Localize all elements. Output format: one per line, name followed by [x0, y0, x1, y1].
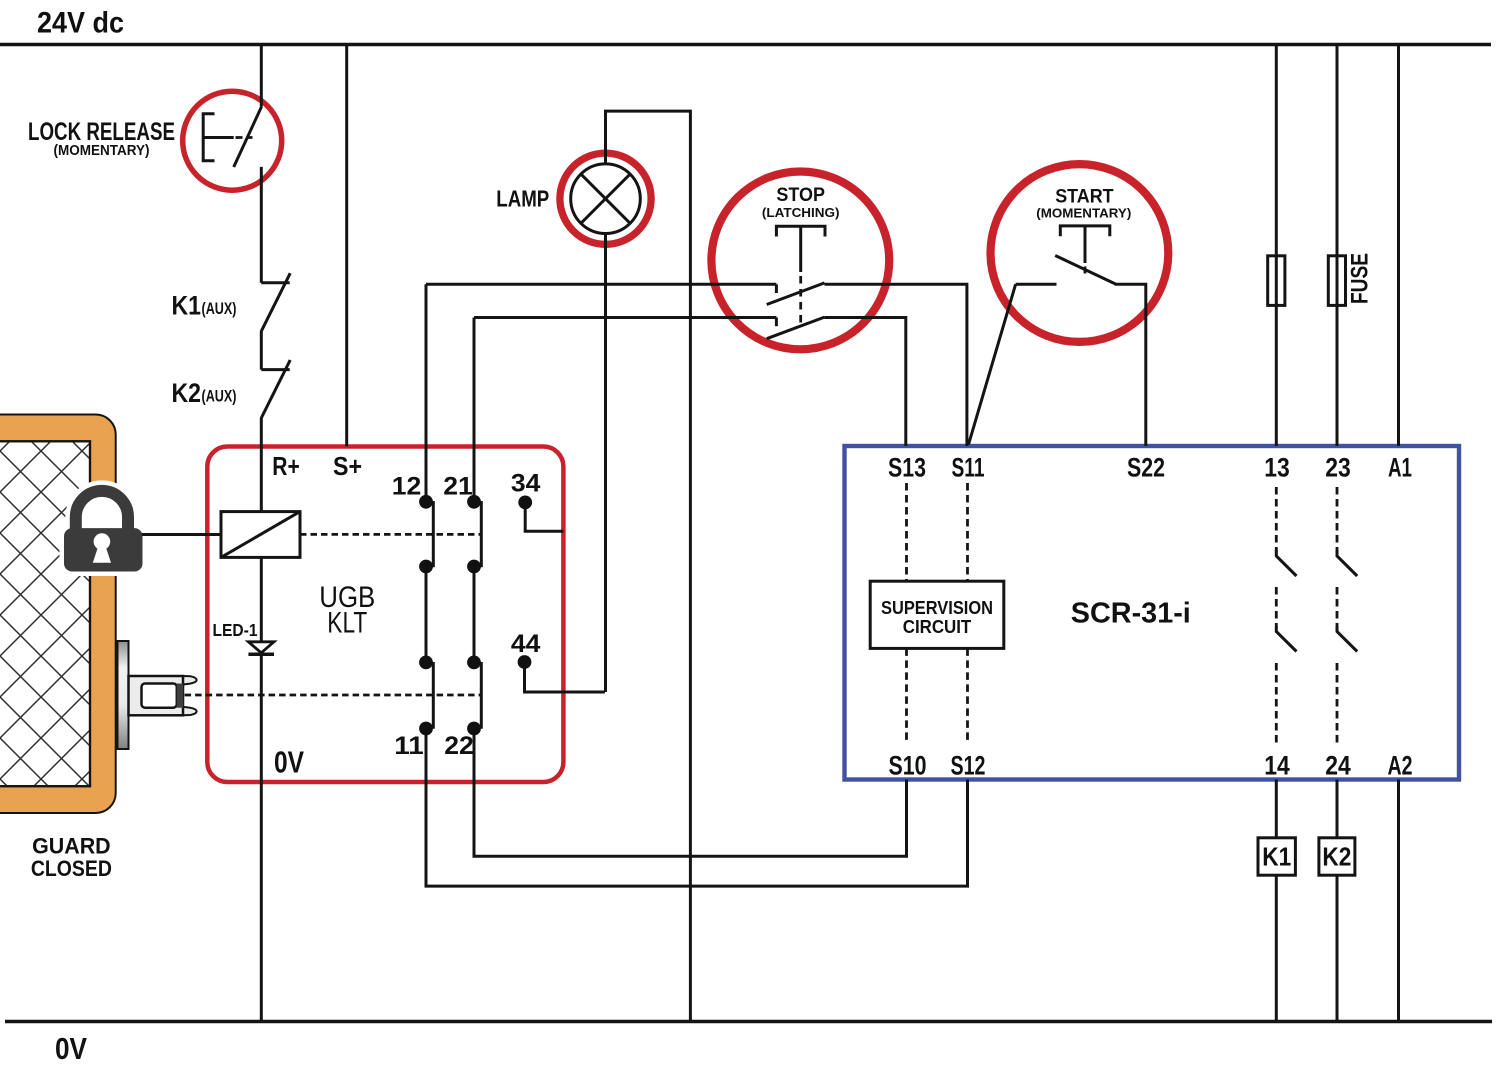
svg-text:0V: 0V [55, 1031, 87, 1065]
svg-text:22: 22 [444, 732, 474, 760]
svg-text:START: START [1055, 185, 1113, 207]
svg-text:(MOMENTARY): (MOMENTARY) [54, 143, 150, 159]
svg-text:K1: K1 [1262, 842, 1291, 872]
svg-text:STOP: STOP [776, 185, 825, 206]
svg-text:K2: K2 [1322, 842, 1351, 872]
svg-text:FUSE: FUSE [1347, 253, 1374, 304]
svg-text:(AUX): (AUX) [202, 388, 237, 406]
svg-text:CIRCUIT: CIRCUIT [903, 617, 972, 637]
svg-text:12: 12 [392, 472, 422, 500]
svg-text:(AUX): (AUX) [202, 300, 237, 318]
svg-text:GUARD: GUARD [32, 834, 111, 859]
svg-text:(MOMENTARY): (MOMENTARY) [1036, 205, 1131, 220]
svg-text:34: 34 [511, 470, 541, 498]
svg-text:SCR-31-i: SCR-31-i [1071, 598, 1191, 630]
svg-text:23: 23 [1325, 452, 1351, 482]
svg-text:S10: S10 [889, 751, 927, 781]
svg-text:S22: S22 [1127, 452, 1165, 482]
svg-text:LOCK RELEASE: LOCK RELEASE [28, 118, 175, 146]
svg-text:11: 11 [394, 732, 424, 760]
svg-text:R+: R+ [272, 451, 300, 481]
svg-text:S13: S13 [888, 452, 926, 482]
svg-text:K1: K1 [172, 291, 202, 321]
svg-text:21: 21 [443, 472, 473, 500]
svg-text:24V dc: 24V dc [37, 7, 124, 40]
svg-text:A1: A1 [1388, 452, 1412, 482]
svg-text:SUPERVISION: SUPERVISION [881, 598, 993, 618]
svg-text:(LATCHING): (LATCHING) [762, 205, 840, 220]
svg-text:A2: A2 [1388, 751, 1413, 781]
svg-text:LAMP: LAMP [496, 185, 549, 211]
svg-text:44: 44 [511, 630, 541, 658]
svg-text:CLOSED: CLOSED [31, 856, 112, 881]
svg-text:S12: S12 [951, 751, 986, 781]
svg-text:S11: S11 [952, 452, 985, 482]
svg-text:LED-1: LED-1 [213, 620, 258, 640]
svg-text:14: 14 [1264, 751, 1290, 781]
svg-text:KLT: KLT [327, 607, 367, 640]
svg-text:K2: K2 [172, 378, 202, 408]
svg-text:S+: S+ [333, 451, 362, 481]
svg-text:0V: 0V [274, 745, 304, 780]
svg-text:13: 13 [1264, 452, 1290, 482]
svg-text:24: 24 [1325, 751, 1351, 781]
